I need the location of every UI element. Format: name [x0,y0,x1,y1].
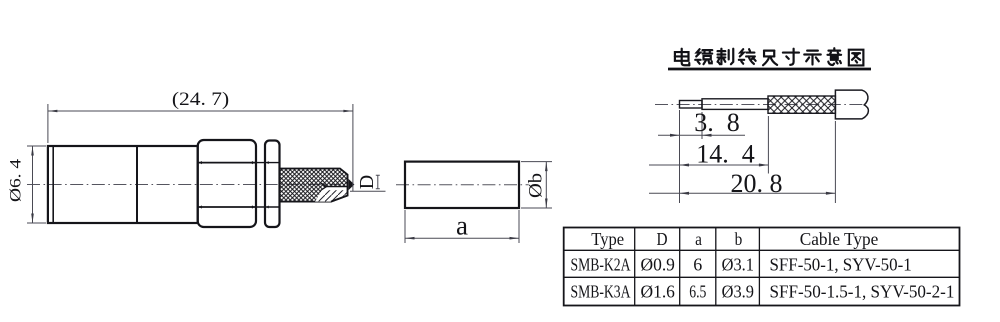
svg-text:Ø1.6: Ø1.6 [640,281,675,301]
svg-text:Ø6. 4: Ø6. 4 [6,159,24,202]
svg-text:Ø3.1: Ø3.1 [722,255,754,275]
svg-text:Type: Type [591,229,624,249]
svg-text:D: D [656,229,667,249]
svg-text:Øb: Øb [525,173,546,198]
svg-text:b: b [735,229,743,249]
svg-text:SMB-K2A: SMB-K2A [571,256,631,275]
svg-text:a: a [695,229,702,249]
svg-text:3. 8: 3. 8 [694,108,740,137]
svg-text:14. 4: 14. 4 [696,140,755,169]
svg-text:SFF-50-1.5-1, SYV-50-2-1: SFF-50-1.5-1, SYV-50-2-1 [770,281,955,302]
svg-text:6.5: 6.5 [689,283,706,302]
svg-text:SMB-K3A: SMB-K3A [571,283,631,302]
svg-text:20. 8: 20. 8 [731,169,783,198]
svg-text:(24. 7): (24. 7) [172,89,229,110]
svg-text:Ø3.9: Ø3.9 [722,282,754,302]
svg-text:Ø0.9: Ø0.9 [640,254,675,274]
svg-text:Cable Type: Cable Type [800,228,879,248]
svg-text:D: D [356,175,378,189]
svg-text:6: 6 [693,255,702,275]
svg-text:SFF-50-1, SYV-50-1: SFF-50-1, SYV-50-1 [770,254,912,275]
svg-text:a: a [456,211,468,241]
